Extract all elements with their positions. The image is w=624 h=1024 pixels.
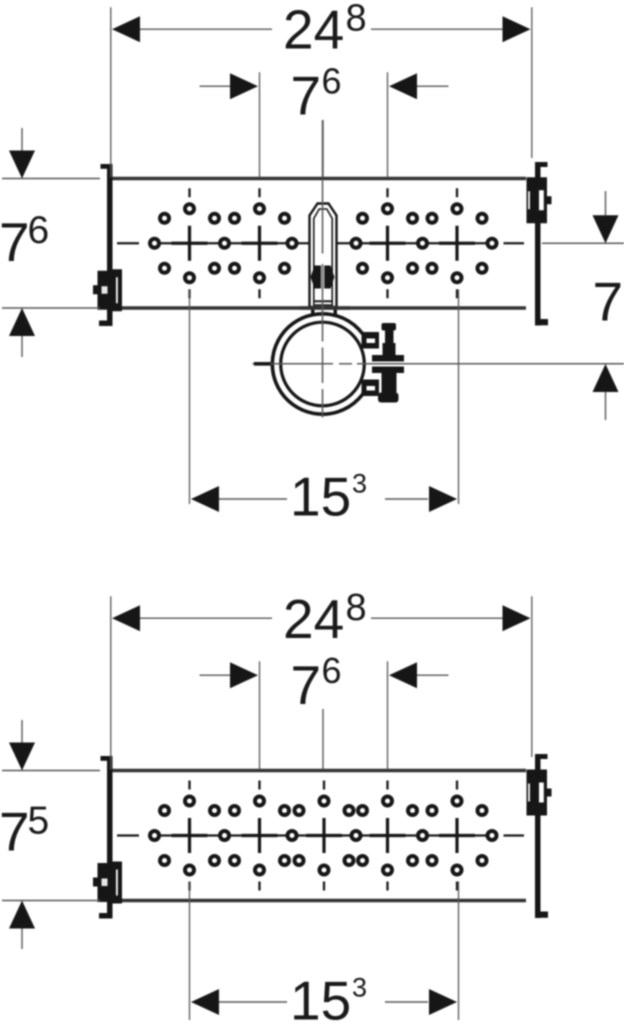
svg-text:5: 5 — [28, 800, 50, 843]
svg-text:24: 24 — [283, 588, 344, 650]
svg-text:3: 3 — [352, 973, 367, 1003]
svg-text:3: 3 — [352, 469, 367, 499]
svg-text:7: 7 — [291, 654, 322, 716]
svg-text:24: 24 — [283, 0, 344, 61]
svg-text:6: 6 — [322, 650, 342, 691]
svg-text:7: 7 — [0, 801, 30, 863]
svg-text:7: 7 — [593, 271, 624, 333]
svg-text:6: 6 — [322, 61, 342, 102]
svg-text:6: 6 — [28, 209, 50, 252]
svg-text:8: 8 — [346, 0, 367, 40]
svg-text:7: 7 — [291, 65, 322, 127]
svg-text:15: 15 — [290, 970, 351, 1024]
svg-text:8: 8 — [346, 587, 367, 629]
svg-text:7: 7 — [0, 211, 30, 273]
svg-text:15: 15 — [290, 466, 351, 528]
